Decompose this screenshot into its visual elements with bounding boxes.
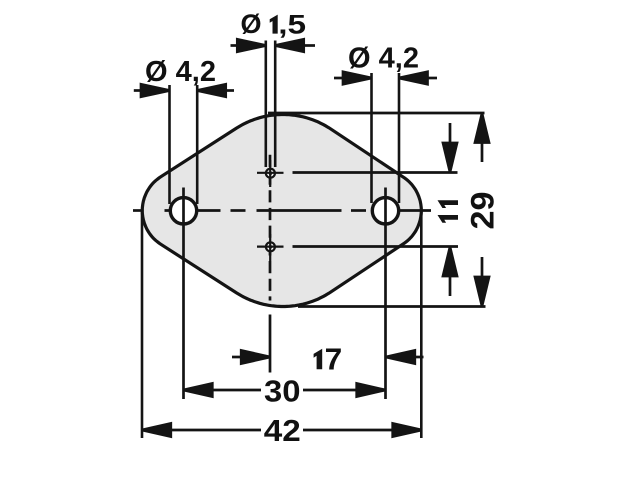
- dim 17 label: [314, 349, 323, 370]
- pin hole top: [257, 160, 284, 187]
- mounting hole right: [372, 198, 398, 224]
- flange left tip extension: [141, 212, 144, 438]
- flange right tip extension: [420, 212, 423, 438]
- pin hole bottom: [257, 234, 284, 261]
- svg-text:Ø 4,2: Ø 4,2: [348, 43, 419, 75]
- dim Ø4,2 right extension lines: [372, 73, 400, 203]
- dim 29 extension lines (flange top/bottom to right): [268, 113, 486, 307]
- svg-text:29: 29: [464, 192, 500, 230]
- dim Ø1,5 arrows: [231, 39, 316, 51]
- right hole vertical center/extension line: [384, 188, 387, 400]
- dim 42 arrows and line: [142, 423, 422, 436]
- vertical centerline (dashed, through pin holes): [269, 155, 272, 373]
- dim Ø1,5 extension lines: [266, 41, 275, 168]
- mounting hole left: [170, 198, 196, 224]
- dim 11 arrows: [443, 123, 457, 296]
- dim 30 arrows and line: [184, 383, 386, 396]
- dim 29 arrows: [475, 114, 489, 307]
- dim 11 extension lines (pin holes to right): [293, 173, 459, 247]
- dim 17 arrows: [232, 350, 424, 363]
- dim Ø4,2 left extension lines: [170, 85, 198, 204]
- svg-text:,5: ,5: [278, 9, 306, 39]
- svg-text:30: 30: [264, 374, 301, 409]
- svg-text:Ø: Ø: [241, 9, 262, 39]
- dim Ø4,2 left arrows: [134, 84, 234, 96]
- dim 11 label (rotated): [438, 200, 459, 223]
- svg-text:Ø 4,2: Ø 4,2: [145, 56, 216, 88]
- horizontal centerline (dash segments): [133, 209, 431, 212]
- bottom extension lines: [142, 212, 421, 438]
- left hole vertical center/extension line: [182, 188, 185, 400]
- svg-text:7: 7: [325, 342, 343, 377]
- svg-text:42: 42: [264, 413, 301, 448]
- flange outline (TO-3 washer body): [142, 115, 421, 307]
- dim Ø4,2 right arrows: [334, 72, 437, 84]
